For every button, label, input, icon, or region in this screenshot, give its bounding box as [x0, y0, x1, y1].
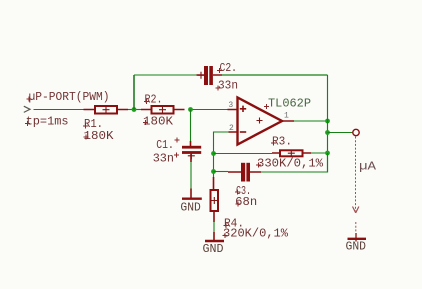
op-amp U1 TL062P — [228, 98, 295, 145]
origin cross of label µP-PORT(PWM) — [27, 97, 32, 102]
node OUT: terminal circle — [353, 129, 359, 135]
svg-text:R3.: R3. — [272, 135, 292, 149]
origin cross of value 180K — [84, 135, 89, 140]
resistor R3 — [272, 150, 311, 157]
origin cross of label R3. — [271, 141, 276, 146]
svg-text:µP-PORT(PWM): µP-PORT(PWM) — [29, 90, 110, 104]
svg-text:320K/0,1%: 320K/0,1% — [223, 227, 289, 241]
capacitor C3 — [228, 163, 261, 182]
wire J3 to R3 — [214, 153, 273, 155]
resistor R4 — [211, 177, 219, 222]
resistor R2 — [141, 106, 185, 114]
origin cross of label R4. — [224, 223, 229, 228]
svg-text:GND: GND — [203, 242, 224, 256]
origin cross of value 330K/0,1% — [256, 163, 261, 168]
junction J5 — [325, 119, 330, 124]
svg-text:1: 1 — [284, 112, 289, 121]
svg-text:C2.: C2. — [220, 61, 238, 75]
svg-text:tp=1ms: tp=1ms — [26, 115, 69, 129]
origin cross of value TL062P — [264, 104, 269, 109]
origin cross of label R2. — [144, 99, 149, 104]
junction J3 — [211, 151, 216, 156]
junction J7 — [325, 151, 330, 156]
svg-text:330K/0,1%: 330K/0,1% — [257, 157, 324, 171]
wire op-amp pin2 feedback — [214, 132, 229, 177]
svg-text:180K: 180K — [84, 129, 115, 143]
origin cross of label tp=1ms — [25, 121, 30, 126]
origin cross of label C1. — [175, 138, 180, 143]
svg-text:33n: 33n — [153, 152, 174, 166]
svg-text:2: 2 — [229, 124, 234, 133]
wire J4 to C3 — [214, 171, 229, 173]
svg-text:180K: 180K — [143, 115, 174, 129]
wire right rail vertical — [327, 75, 329, 173]
svg-text:C1.: C1. — [156, 138, 174, 152]
wire op-amp output to right rail — [294, 120, 328, 122]
svg-text:33n: 33n — [218, 79, 238, 93]
wire R1 to R2 — [128, 109, 141, 111]
wire C2 to right rail — [222, 74, 328, 76]
junction J2 — [188, 107, 193, 112]
wire J2 down to C1 — [190, 110, 192, 142]
origin cross of value 33n of C1 — [174, 153, 179, 158]
svg-text:TL062P: TL062P — [268, 97, 311, 111]
origin cross of value 180K of R2 — [143, 120, 148, 125]
wire feedback up from J1 and along top to C2 — [133, 75, 135, 110]
wire R2 to op-amp pin 3 — [191, 109, 228, 111]
junction J1 — [132, 107, 137, 112]
wire to output terminal — [328, 132, 353, 134]
origin cross of label C3. — [235, 190, 240, 195]
ground GND1 under C1 — [182, 189, 202, 199]
origin cross of label C2. — [217, 68, 222, 73]
wire C1 to GND — [190, 162, 192, 189]
ground GND2 under R4 — [205, 232, 224, 242]
wire µA meter dashed arrow — [353, 137, 359, 213]
capacitor C1 — [182, 141, 201, 162]
origin cross of value 320K/0,1% — [223, 233, 228, 238]
svg-text:GND: GND — [180, 200, 200, 214]
svg-text:µA: µA — [359, 160, 377, 174]
svg-text:GND: GND — [346, 240, 367, 254]
origin cross of value 68n — [236, 202, 241, 207]
capacitor C2 — [197, 66, 223, 85]
resistor R1 — [84, 106, 129, 114]
wire input to R1 — [34, 109, 84, 111]
wire R4 to GND2 — [213, 222, 215, 232]
junction J6 — [325, 130, 330, 135]
origin cross of label R1. — [83, 124, 88, 129]
wire C3 to right rail corner — [261, 153, 328, 173]
svg-text:3: 3 — [228, 101, 233, 110]
node IN: input port arrow — [24, 106, 30, 112]
wire R3 to right rail — [311, 152, 328, 154]
ground GND3 right — [348, 222, 367, 242]
junction J4 — [211, 169, 216, 174]
svg-text:R2.: R2. — [145, 93, 163, 107]
origin cross of value 33n of C2 — [216, 86, 221, 91]
